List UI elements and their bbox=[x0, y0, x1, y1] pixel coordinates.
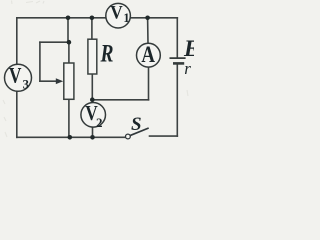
svg-text:S: S bbox=[131, 114, 142, 135]
wire V2 bottom lead bbox=[92, 127, 94, 137]
wire bottom right horizontal bbox=[150, 135, 178, 137]
ammeter A circle bbox=[137, 43, 161, 67]
junction node dot rheostat top y42 bbox=[67, 40, 72, 45]
wire R top lead bbox=[91, 18, 93, 39]
wire wiper left vertical x40 bbox=[39, 42, 41, 81]
svg-text:R: R bbox=[100, 40, 114, 67]
wire middle horizontal y100 bbox=[92, 99, 148, 101]
wire right vertical upper bbox=[176, 18, 178, 58]
wire bottom left horizontal bbox=[17, 136, 126, 138]
battery short plate (negative) bbox=[173, 62, 184, 65]
voltmeter V2 circle bbox=[81, 103, 106, 128]
junction node dot top-right x147.6 bbox=[145, 15, 150, 20]
junction node dot V2 top y100 bbox=[90, 97, 95, 102]
wire horizontal y42 bbox=[40, 41, 69, 43]
wire rheostat bottom lead bbox=[68, 99, 70, 137]
svg-text:r: r bbox=[184, 59, 191, 78]
wire rheostat top lead bbox=[68, 42, 70, 63]
svg-text:A: A bbox=[141, 42, 155, 67]
svg-text:2: 2 bbox=[96, 115, 103, 130]
svg-text:V: V bbox=[110, 3, 123, 24]
wire ammeter bottom lead bbox=[148, 67, 150, 100]
wire ammeter top lead bbox=[147, 18, 149, 44]
wire node-to-rheostat vertical x68 bbox=[67, 18, 69, 42]
wire R bottom to V2 bbox=[91, 74, 93, 103]
junction node dot bottom rheostat bbox=[68, 135, 73, 140]
svg-text:E: E bbox=[183, 36, 194, 61]
junction node dot top-left x68 bbox=[66, 15, 71, 20]
wire wiper horizontal y81 bbox=[40, 80, 57, 82]
svg-text:3: 3 bbox=[23, 76, 30, 91]
battery long plate (E positive) bbox=[170, 57, 186, 59]
junction node dot bottom V2 bbox=[90, 135, 95, 140]
svg-text:1: 1 bbox=[123, 11, 129, 25]
switch S pivot circle bbox=[126, 134, 131, 139]
junction node dot top x92 bbox=[90, 15, 95, 20]
wire top horizontal bbox=[17, 17, 178, 19]
svg-text:V: V bbox=[9, 62, 22, 87]
voltmeter V1 circle bbox=[106, 3, 131, 28]
rheostat body rectangle bbox=[64, 63, 74, 99]
resistor R body rectangle bbox=[88, 39, 97, 74]
wire left vertical bbox=[16, 18, 18, 138]
rheostat wiper arrowhead bbox=[56, 78, 63, 84]
voltmeter V3 circle bbox=[5, 64, 32, 91]
switch S blade bbox=[130, 128, 148, 135]
wire right vertical lower bbox=[176, 64, 178, 137]
